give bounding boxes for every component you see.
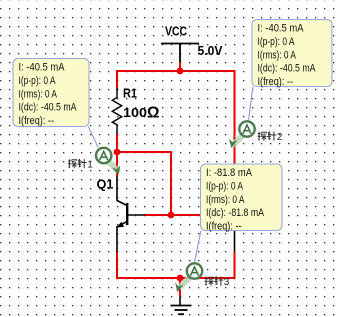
wire: bottom rail <box>117 252 235 279</box>
probe 2 label <box>258 132 277 141</box>
svg-text:I(dc): -81.8 mA: I(dc): -81.8 mA <box>206 207 265 219</box>
probe 3 label <box>205 277 224 286</box>
measurement box 3 (middle) <box>201 164 283 232</box>
junction R1/collector node <box>114 149 121 156</box>
wire: base horizontal <box>145 214 227 216</box>
svg-text:I: -81.8 mA: I: -81.8 mA <box>206 167 253 179</box>
svg-text:VCC: VCC <box>165 25 187 39</box>
transistor Q1 <box>117 176 145 252</box>
svg-text:I(dc): -40.5 mA: I(dc): -40.5 mA <box>258 63 317 75</box>
VCC symbol <box>161 44 199 63</box>
svg-text:3: 3 <box>224 277 230 288</box>
svg-text:I(p-p): 0 A: I(p-p): 0 A <box>206 181 244 193</box>
probe 3 <box>173 263 202 293</box>
wire: VCC stub <box>179 62 181 72</box>
svg-text:I(rms): 0 A: I(rms): 0 A <box>258 49 297 61</box>
probe 2 <box>227 121 255 149</box>
wire: ground stub <box>179 278 181 297</box>
probe 1 label <box>68 159 87 168</box>
leader line probe2 <box>249 87 253 121</box>
svg-text:5.0V: 5.0V <box>198 44 224 58</box>
svg-text:Ω: Ω <box>147 104 159 121</box>
svg-text:I(rms): 0 A: I(rms): 0 A <box>19 88 58 100</box>
svg-text:1: 1 <box>87 160 93 171</box>
Q1 emitter arrow <box>116 222 124 228</box>
svg-text:I(p-p): 0 A: I(p-p): 0 A <box>19 75 57 87</box>
svg-text:I(freq): --: I(freq): -- <box>206 220 242 232</box>
wire: top rail + right branch <box>117 71 235 165</box>
svg-text:Q1: Q1 <box>97 178 114 192</box>
wire: node to base net <box>117 152 171 215</box>
hidden Q2 emitter lead below box <box>234 231 236 252</box>
wire: right branch lower <box>234 252 236 279</box>
junction ground node <box>177 275 184 282</box>
svg-text:I(rms): 0 A: I(rms): 0 A <box>206 194 245 206</box>
svg-text:R1: R1 <box>123 87 137 101</box>
svg-text:2: 2 <box>277 132 283 143</box>
svg-text:100: 100 <box>123 106 147 120</box>
junction base node <box>168 212 175 219</box>
measurement box 2 (top right) <box>252 20 332 88</box>
probe 1 <box>96 148 123 176</box>
resistor R1 <box>112 88 121 134</box>
leader line probe1 <box>88 126 98 148</box>
svg-text:I: -40.5 mA: I: -40.5 mA <box>258 23 305 35</box>
leader line probe3 <box>195 231 201 263</box>
svg-text:I(freq): --: I(freq): -- <box>258 76 294 88</box>
junction VCC node <box>177 68 184 75</box>
svg-text:I: -40.5 mA: I: -40.5 mA <box>19 62 66 74</box>
ground <box>171 297 192 315</box>
measurement box 1 (left) <box>13 59 89 127</box>
svg-text:I(dc): -40.5 mA: I(dc): -40.5 mA <box>19 102 78 114</box>
svg-text:I(freq): --: I(freq): -- <box>19 115 55 127</box>
svg-text:I(p-p): 0 A: I(p-p): 0 A <box>258 36 296 48</box>
wire: R1 bottom to collector <box>116 134 118 177</box>
